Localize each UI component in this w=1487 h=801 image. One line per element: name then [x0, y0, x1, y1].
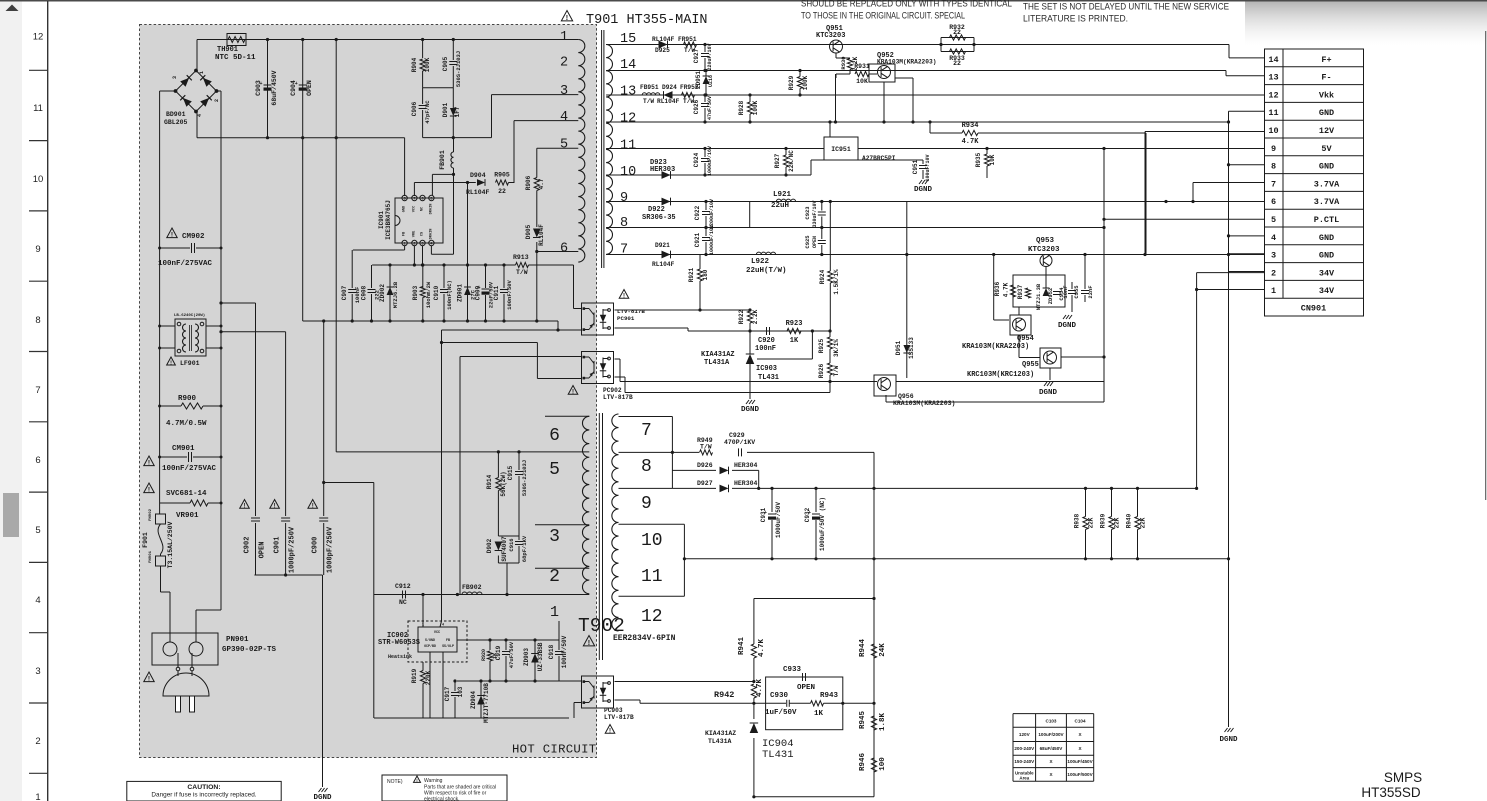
- svg-text:BD901: BD901: [166, 111, 186, 118]
- svg-text:C917: C917: [444, 686, 451, 701]
- svg-text:100uF/200V: 100uF/200V: [1038, 732, 1064, 737]
- svg-text:2200uF/10V: 2200uF/10V: [709, 199, 715, 229]
- svg-text:C916: C916: [508, 538, 515, 551]
- svg-text:8: 8: [1271, 162, 1276, 172]
- svg-text:ZD903: ZD903: [523, 648, 530, 666]
- svg-text:FH901: FH901: [149, 550, 153, 563]
- svg-text:11: 11: [641, 567, 663, 587]
- svg-text:10: 10: [620, 165, 636, 180]
- svg-text:6: 6: [421, 198, 423, 202]
- svg-text:KIA431AZ: KIA431AZ: [701, 351, 735, 359]
- svg-text:C932: C932: [804, 507, 811, 522]
- svg-text:5: 5: [35, 525, 40, 536]
- svg-text:2: 2: [35, 736, 40, 747]
- svg-text:3: 3: [35, 666, 40, 677]
- svg-text:3K/1%: 3K/1%: [833, 339, 840, 357]
- svg-text:C904: C904: [290, 80, 297, 96]
- svg-text:6: 6: [1271, 197, 1276, 207]
- svg-text:R906: R906: [525, 175, 532, 190]
- svg-text:4: 4: [430, 243, 432, 247]
- svg-text:DGND: DGND: [313, 794, 332, 801]
- svg-text:8: 8: [35, 315, 40, 326]
- svg-text:34V: 34V: [1319, 268, 1335, 278]
- svg-text:470P/1KV: 470P/1KV: [724, 439, 755, 446]
- svg-text:FB902: FB902: [462, 584, 482, 591]
- svg-text:47pF/NC: 47pF/NC: [424, 100, 431, 124]
- svg-text:NTZJ1.3B: NTZJ1.3B: [1035, 283, 1042, 310]
- svg-text:OPEN: OPEN: [306, 80, 313, 96]
- svg-text:PC901: PC901: [617, 315, 635, 322]
- svg-text:R936: R936: [994, 281, 1001, 296]
- svg-text:SS/OLP: SS/OLP: [442, 644, 454, 648]
- svg-text:R923: R923: [786, 320, 803, 328]
- svg-text:EER2834V-6PIN: EER2834V-6PIN: [613, 634, 676, 643]
- svg-text:5: 5: [549, 460, 560, 480]
- svg-text:R930: R930: [840, 56, 847, 69]
- svg-text:100nF: 100nF: [755, 345, 776, 353]
- svg-text:12V: 12V: [1319, 126, 1335, 136]
- svg-text:!: !: [243, 503, 245, 509]
- svg-text:34V: 34V: [1319, 286, 1335, 296]
- svg-text:D905: D905: [525, 224, 532, 239]
- svg-text:R926: R926: [818, 363, 825, 378]
- svg-text:22nF: 22nF: [1087, 285, 1094, 298]
- svg-text:C925: C925: [804, 235, 811, 249]
- svg-text:2: 2: [560, 56, 568, 71]
- svg-text:TL431A: TL431A: [704, 359, 730, 367]
- svg-text:1000pF/250V: 1000pF/250V: [327, 526, 335, 573]
- svg-text:R919: R919: [411, 668, 418, 683]
- svg-text:13: 13: [1268, 73, 1278, 83]
- svg-text:TL431: TL431: [758, 374, 779, 382]
- svg-text:T/W: T/W: [833, 365, 840, 376]
- svg-text:100nF/50V: 100nF/50V: [561, 635, 568, 668]
- svg-text:11: 11: [1268, 108, 1278, 118]
- svg-text:A27BRC5PI: A27BRC5PI: [862, 155, 896, 162]
- svg-text:DGND: DGND: [1058, 322, 1077, 330]
- svg-text:T/W: T/W: [700, 444, 712, 451]
- svg-text:RL104F: RL104F: [538, 224, 545, 246]
- svg-text:1: 1: [35, 792, 40, 801]
- svg-text:8: 8: [641, 457, 652, 477]
- svg-text:6: 6: [549, 426, 560, 446]
- svg-text:10: 10: [33, 174, 44, 185]
- svg-text:1: 1: [550, 604, 559, 621]
- svg-text:7: 7: [413, 198, 415, 202]
- svg-text:100nF(NC): 100nF(NC): [446, 280, 453, 310]
- svg-text:!: !: [171, 232, 173, 239]
- svg-text:LTV-817B: LTV-817B: [617, 308, 645, 315]
- svg-text:2: 2: [549, 567, 560, 587]
- svg-text:200-240V: 200-240V: [1014, 746, 1035, 751]
- svg-text:530S-2J103J: 530S-2J103J: [455, 51, 462, 87]
- svg-text:1000uF/16V: 1000uF/16V: [707, 146, 713, 176]
- svg-text:R905: R905: [494, 172, 510, 179]
- svg-text:ZD952: ZD952: [1047, 288, 1054, 305]
- svg-text:LTV-817B: LTV-817B: [603, 394, 633, 401]
- svg-text:D925: D925: [655, 47, 670, 54]
- svg-text:Q954: Q954: [1017, 335, 1034, 343]
- svg-text:1: 1: [199, 71, 205, 74]
- svg-text:1000pF/250V: 1000pF/250V: [289, 526, 297, 573]
- svg-text:Warning: Warning: [424, 778, 443, 784]
- svg-text:100uF/450V: 100uF/450V: [1067, 759, 1093, 764]
- svg-text:KRA103M(KRA2203): KRA103M(KRA2203): [877, 59, 936, 66]
- svg-text:68uF/450V: 68uF/450V: [1040, 746, 1064, 751]
- svg-text:22: 22: [953, 60, 961, 67]
- svg-text:RL104F: RL104F: [466, 189, 490, 196]
- svg-text:12: 12: [33, 32, 44, 43]
- svg-text:100: 100: [879, 757, 887, 771]
- svg-text:R927: R927: [774, 153, 781, 168]
- svg-text:VCC: VCC: [434, 631, 440, 635]
- svg-text:R937: R937: [1017, 284, 1024, 299]
- svg-text:330uF/10V: 330uF/10V: [812, 200, 818, 227]
- svg-text:C922: C922: [694, 205, 701, 220]
- svg-text:R935: R935: [975, 152, 982, 167]
- svg-text:F901: F901: [142, 532, 149, 548]
- svg-text:DGND: DGND: [914, 186, 933, 194]
- svg-text:150-240V: 150-240V: [1014, 759, 1035, 764]
- svg-text:HT355SD: HT355SD: [1361, 785, 1421, 800]
- svg-text:DRAIN: DRAIN: [429, 229, 433, 240]
- svg-text:22K: 22K: [1140, 517, 1147, 528]
- svg-text:TO THOSE IN THE ORIGINAL CIRCU: TO THOSE IN THE ORIGINAL CIRCUIT. SPECIA…: [801, 11, 965, 21]
- svg-text:D902: D902: [486, 538, 493, 553]
- svg-text:RL104F: RL104F: [657, 98, 680, 105]
- svg-text:LITERATURE IS PRINTED.: LITERATURE IS PRINTED.: [1023, 14, 1128, 24]
- svg-text:GP390-02P-TS: GP390-02P-TS: [222, 646, 277, 654]
- svg-text:F-: F-: [1321, 73, 1331, 83]
- svg-text:T901 HT355-MAIN: T901 HT355-MAIN: [586, 13, 708, 28]
- svg-text:11: 11: [33, 103, 43, 114]
- svg-text:P.CTL: P.CTL: [1314, 215, 1340, 225]
- svg-text:C103: C103: [1046, 718, 1057, 723]
- svg-text:CAUTION:: CAUTION:: [187, 784, 220, 791]
- svg-text:HER303: HER303: [650, 166, 675, 174]
- svg-text:100K: 100K: [802, 75, 809, 90]
- svg-text:C902: C902: [244, 537, 252, 554]
- svg-text:STR-W6053S: STR-W6053S: [378, 639, 420, 647]
- svg-text:D922: D922: [648, 206, 665, 214]
- svg-text:100uF/10V: 100uF/10V: [925, 154, 931, 181]
- svg-text:T3.15AL/250V: T3.15AL/250V: [167, 521, 174, 568]
- svg-text:D951: D951: [895, 340, 902, 355]
- svg-text:2: 2: [214, 99, 220, 102]
- svg-text:9: 9: [641, 494, 652, 514]
- svg-text:VRE: VRE: [412, 230, 416, 237]
- svg-text:10ohm/2W: 10ohm/2W: [425, 281, 432, 308]
- svg-text:C921: C921: [694, 232, 701, 247]
- svg-text:120V: 120V: [1019, 732, 1031, 737]
- svg-text:R921: R921: [688, 267, 695, 282]
- svg-text:LF901: LF901: [180, 360, 200, 367]
- svg-text:!: !: [274, 503, 276, 509]
- svg-text:10K: 10K: [856, 78, 868, 85]
- svg-text:C910: C910: [433, 285, 440, 300]
- svg-text:GND: GND: [1319, 233, 1334, 243]
- svg-text:UZ18: UZ18: [708, 75, 714, 87]
- svg-text:7: 7: [641, 421, 652, 441]
- svg-text:F+: F+: [1321, 55, 1331, 65]
- svg-text:OPEN: OPEN: [812, 236, 818, 248]
- svg-text:1K: 1K: [790, 337, 799, 345]
- svg-text:TL431A: TL431A: [708, 738, 732, 745]
- svg-text:L922: L922: [751, 258, 770, 266]
- svg-text:C929: C929: [729, 432, 745, 439]
- svg-text:MTZJ6.2B: MTZJ6.2B: [392, 281, 399, 308]
- svg-text:SUF4007: SUF4007: [501, 536, 508, 562]
- svg-text:PN901: PN901: [226, 636, 249, 644]
- svg-text:R925: R925: [818, 338, 825, 353]
- svg-text:12: 12: [641, 607, 663, 627]
- svg-text:FB901: FB901: [439, 150, 446, 170]
- svg-text:R945: R945: [859, 711, 867, 730]
- svg-text:KRC103M(KRC1203): KRC103M(KRC1203): [967, 371, 1034, 379]
- svg-text:22K/NC: 22K/NC: [788, 150, 795, 172]
- svg-text:Danger if fuse is incorrectly: Danger if fuse is incorrectly replaced.: [151, 792, 256, 799]
- svg-text:CM901: CM901: [172, 445, 195, 453]
- svg-text:9: 9: [1271, 144, 1276, 154]
- svg-text:THE SET IS NOT DELAYED UNTIL T: THE SET IS NOT DELAYED UNTIL THE NEW SER…: [1023, 2, 1229, 12]
- svg-text:Q955: Q955: [1022, 361, 1039, 369]
- svg-text:100K: 100K: [752, 100, 759, 115]
- svg-text:R944: R944: [859, 639, 867, 658]
- svg-text:ZD904: ZD904: [470, 691, 477, 709]
- svg-text:4: 4: [35, 595, 40, 606]
- svg-text:DGND: DGND: [1219, 736, 1238, 744]
- svg-text:R920: R920: [481, 649, 487, 661]
- svg-text:C923: C923: [804, 206, 811, 220]
- svg-text:LTV-817B: LTV-817B: [604, 714, 634, 721]
- svg-text:PC903: PC903: [604, 707, 623, 714]
- svg-text:1uF/50V: 1uF/50V: [765, 709, 797, 717]
- svg-text:FB: FB: [446, 638, 450, 642]
- svg-text:C951: C951: [912, 159, 919, 174]
- svg-text:SVC681-14: SVC681-14: [166, 490, 207, 498]
- svg-text:68pF/1KV: 68pF/1KV: [521, 535, 528, 562]
- svg-text:2: 2: [1271, 268, 1276, 278]
- svg-text:GND: GND: [1319, 251, 1334, 261]
- svg-text:R924: R924: [819, 269, 826, 284]
- svg-text:ZD902: ZD902: [379, 284, 386, 302]
- svg-text:!: !: [170, 360, 172, 366]
- svg-text:Area: Area: [1019, 776, 1029, 781]
- svg-text:L921: L921: [773, 191, 792, 199]
- svg-text:SR306-35: SR306-35: [642, 214, 676, 222]
- svg-text:!: !: [566, 14, 568, 22]
- svg-text:4.7K: 4.7K: [962, 138, 980, 146]
- svg-text:12: 12: [1268, 90, 1278, 100]
- svg-text:100nF/50V: 100nF/50V: [506, 279, 513, 309]
- svg-text:22: 22: [953, 29, 961, 36]
- svg-text:!: !: [148, 460, 150, 467]
- svg-text:R929: R929: [788, 75, 795, 90]
- svg-text:R904: R904: [411, 57, 418, 72]
- svg-text:530S-2J103J: 530S-2J103J: [521, 460, 528, 496]
- svg-text:R931: R931: [854, 63, 870, 70]
- svg-text:Q956: Q956: [898, 393, 914, 400]
- svg-text:TH901: TH901: [217, 46, 238, 54]
- svg-text:100nF/275VAC: 100nF/275VAC: [158, 260, 213, 268]
- svg-text:ICE3BR4765J: ICE3BR4765J: [385, 200, 392, 240]
- svg-text:R903: R903: [412, 285, 419, 300]
- svg-text:9: 9: [620, 191, 628, 206]
- svg-text:10K: 10K: [989, 154, 996, 165]
- svg-text:D921: D921: [655, 242, 670, 249]
- svg-text:KRA103M(KRA2203): KRA103M(KRA2203): [893, 400, 955, 407]
- svg-text:C926: C926: [693, 99, 700, 114]
- svg-text:22uH: 22uH: [771, 202, 789, 210]
- svg-text:1K: 1K: [814, 710, 824, 718]
- svg-text:electrical shock.: electrical shock.: [424, 797, 460, 801]
- svg-text:1SS133: 1SS133: [908, 337, 915, 359]
- svg-text:1000uF/10V: 1000uF/10V: [709, 225, 715, 255]
- svg-text:4: 4: [1271, 233, 1276, 243]
- svg-text:47uF/50V: 47uF/50V: [508, 641, 515, 668]
- svg-text:!: !: [609, 728, 611, 734]
- svg-text:C918: C918: [548, 644, 555, 659]
- svg-text:DRAIN: DRAIN: [429, 204, 433, 215]
- svg-text:!: !: [312, 503, 314, 509]
- svg-text:24K: 24K: [879, 643, 887, 657]
- svg-text:3.7VA: 3.7VA: [1314, 179, 1340, 189]
- svg-text:100uF/500V: 100uF/500V: [1067, 772, 1093, 777]
- svg-text:VR901: VR901: [176, 512, 199, 520]
- svg-text:R942: R942: [714, 690, 734, 700]
- svg-text:R900: R900: [178, 395, 197, 403]
- svg-text:1F7: 1F7: [454, 106, 461, 117]
- svg-text:14: 14: [1268, 55, 1278, 65]
- svg-text:HER304: HER304: [734, 480, 758, 487]
- svg-text:7: 7: [35, 385, 40, 396]
- svg-text:C933: C933: [783, 666, 802, 674]
- svg-text:C924: C924: [693, 152, 700, 167]
- svg-text:R938: R938: [1074, 513, 1081, 528]
- svg-text:R940: R940: [1126, 513, 1133, 528]
- svg-text:PC902: PC902: [603, 387, 622, 394]
- svg-text:1000uF/50V (NC): 1000uF/50V (NC): [819, 497, 826, 551]
- svg-text:LB-6240C(20W): LB-6240C(20W): [174, 313, 205, 318]
- svg-text:3: 3: [560, 84, 568, 99]
- svg-text:NC: NC: [399, 599, 407, 606]
- svg-text:68uF/450V: 68uF/450V: [271, 70, 278, 105]
- svg-text:R946: R946: [859, 753, 867, 772]
- svg-text:Vkk: Vkk: [1319, 90, 1334, 100]
- svg-text:GND: GND: [1319, 108, 1334, 118]
- svg-text:8: 8: [620, 216, 628, 231]
- svg-text:CM902: CM902: [182, 233, 205, 241]
- svg-text:SMPS: SMPS: [1384, 770, 1422, 785]
- svg-text:220uF/16V: 220uF/16V: [707, 43, 713, 70]
- svg-text:100K: 100K: [424, 57, 431, 72]
- svg-text:C901: C901: [274, 537, 282, 554]
- svg-text:R914: R914: [486, 474, 493, 489]
- svg-text:R941: R941: [738, 637, 746, 656]
- svg-text:3: 3: [549, 527, 560, 547]
- svg-text:HER304: HER304: [734, 462, 758, 469]
- svg-text:3: 3: [172, 76, 178, 79]
- svg-text:HOT CIRCUIT: HOT CIRCUIT: [512, 743, 596, 757]
- svg-text:47uF/50V: 47uF/50V: [707, 96, 713, 120]
- svg-text:RL104F: RL104F: [652, 36, 675, 43]
- svg-text:C915: C915: [507, 465, 514, 480]
- svg-text:DGND: DGND: [741, 406, 760, 414]
- svg-text:4: 4: [560, 110, 568, 125]
- svg-text:2.2K: 2.2K: [752, 309, 759, 324]
- svg-text:VCC: VCC: [412, 205, 416, 212]
- svg-text:5: 5: [430, 198, 432, 202]
- svg-text:NTC 5D-11: NTC 5D-11: [215, 54, 256, 62]
- svg-text:4.7K: 4.7K: [758, 639, 766, 658]
- svg-text:22K: 22K: [1088, 517, 1095, 528]
- svg-text:Q953: Q953: [1036, 237, 1055, 245]
- svg-text:100nF/275VAC: 100nF/275VAC: [162, 465, 217, 473]
- svg-text:ZD951: ZD951: [695, 71, 702, 89]
- svg-text:13: 13: [620, 85, 636, 100]
- svg-text:5V: 5V: [1321, 144, 1332, 154]
- svg-text:12: 12: [620, 112, 636, 127]
- svg-text:FR951: FR951: [678, 36, 697, 43]
- svg-text:OPEN: OPEN: [797, 684, 815, 692]
- svg-text:Heatsink: Heatsink: [388, 654, 412, 660]
- svg-text:22: 22: [498, 188, 506, 195]
- svg-text:GBL205: GBL205: [164, 119, 188, 126]
- svg-text:TL431: TL431: [762, 749, 794, 761]
- svg-text:180: 180: [702, 269, 709, 280]
- svg-text:6: 6: [35, 455, 40, 466]
- svg-text:IC951: IC951: [831, 146, 851, 153]
- svg-text:5: 5: [560, 138, 568, 153]
- svg-text:!: !: [572, 389, 574, 395]
- svg-text:C919: C919: [495, 645, 502, 660]
- svg-text:220K: 220K: [425, 670, 432, 685]
- svg-text:4.7M/0.5W: 4.7M/0.5W: [166, 420, 207, 428]
- svg-text:5: 5: [1271, 215, 1276, 225]
- svg-text:!: !: [623, 293, 625, 299]
- svg-text:OCP/BD: OCP/BD: [424, 644, 436, 648]
- svg-text:4.7K: 4.7K: [756, 679, 764, 698]
- svg-text:!: !: [148, 676, 150, 683]
- svg-text:7: 7: [1271, 179, 1276, 189]
- svg-text:DGND: DGND: [1039, 389, 1058, 397]
- svg-text:IC901: IC901: [378, 211, 385, 229]
- svg-text:1.5K/1%: 1.5K/1%: [833, 269, 840, 295]
- svg-text:6: 6: [560, 242, 568, 257]
- svg-text:4: 4: [442, 624, 444, 628]
- svg-text:R934: R934: [962, 122, 979, 130]
- svg-text:!: !: [588, 639, 590, 647]
- svg-text:C905: C905: [442, 56, 449, 71]
- svg-text:10: 10: [641, 531, 663, 551]
- svg-text:C930: C930: [770, 692, 789, 700]
- svg-text:3: 3: [1271, 251, 1276, 261]
- svg-text:C927: C927: [693, 48, 700, 63]
- svg-text:R939: R939: [1100, 513, 1107, 528]
- svg-text:11: 11: [620, 139, 636, 154]
- svg-text:C920: C920: [758, 337, 775, 345]
- svg-text:C912: C912: [395, 583, 411, 590]
- svg-text:GND: GND: [1319, 162, 1334, 172]
- svg-text:R943: R943: [820, 692, 839, 700]
- svg-text:C908: C908: [361, 285, 368, 300]
- svg-text:3.7VA: 3.7VA: [1314, 197, 1340, 207]
- svg-text:CN901: CN901: [1301, 304, 1327, 314]
- svg-text:UZ-33BSB: UZ-33BSB: [537, 642, 544, 671]
- svg-text:C909: C909: [475, 285, 482, 300]
- svg-text:D904: D904: [470, 172, 486, 179]
- svg-text:FB951: FB951: [640, 84, 659, 91]
